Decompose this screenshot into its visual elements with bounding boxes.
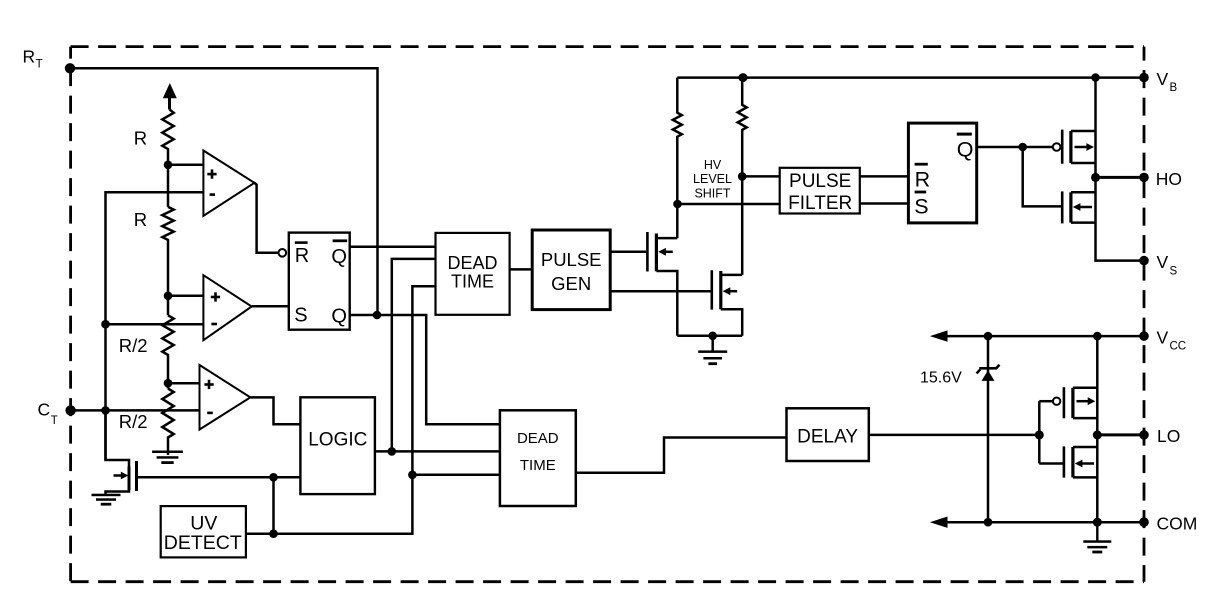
svg-text:HO: HO <box>1156 169 1182 189</box>
svg-text:R/2: R/2 <box>119 335 148 356</box>
svg-text:R: R <box>134 209 147 230</box>
svg-text:DETECT: DETECT <box>164 532 242 554</box>
svg-text:Q: Q <box>331 306 347 328</box>
svg-text:R: R <box>915 168 931 192</box>
svg-text:R: R <box>295 245 309 267</box>
svg-text:15.6V: 15.6V <box>920 370 962 387</box>
svg-text:T: T <box>51 415 58 427</box>
svg-text:B: B <box>1170 82 1178 94</box>
svg-text:V: V <box>1157 327 1169 347</box>
svg-text:GEN: GEN <box>551 273 591 294</box>
svg-text:V: V <box>1157 252 1169 272</box>
svg-text:LO: LO <box>1157 426 1180 446</box>
svg-text:DEAD: DEAD <box>447 253 497 273</box>
svg-text:R: R <box>23 47 36 67</box>
svg-text:S: S <box>1170 266 1178 278</box>
svg-text:TIME: TIME <box>520 457 556 474</box>
svg-text:PULSE: PULSE <box>789 171 851 192</box>
svg-text:COM: COM <box>1157 513 1198 533</box>
svg-text:R: R <box>134 127 147 148</box>
svg-text:Q: Q <box>957 138 974 162</box>
svg-text:HV: HV <box>704 158 722 172</box>
svg-text:LEVEL: LEVEL <box>693 172 732 186</box>
svg-text:DELAY: DELAY <box>797 427 858 448</box>
svg-text:SHIFT: SHIFT <box>694 186 730 200</box>
svg-text:CC: CC <box>1170 341 1187 353</box>
svg-text:C: C <box>38 400 51 420</box>
svg-text:DEAD: DEAD <box>517 430 559 447</box>
svg-text:LOGIC: LOGIC <box>308 429 367 450</box>
svg-text:S: S <box>294 304 307 326</box>
svg-text:T: T <box>36 59 43 71</box>
svg-text:FILTER: FILTER <box>788 193 852 214</box>
svg-text:S: S <box>914 195 928 219</box>
svg-text:R/2: R/2 <box>119 411 148 432</box>
svg-text:Q: Q <box>331 246 347 268</box>
svg-text:PULSE: PULSE <box>541 249 602 270</box>
svg-text:TIME: TIME <box>451 271 494 291</box>
svg-text:V: V <box>1157 69 1169 89</box>
